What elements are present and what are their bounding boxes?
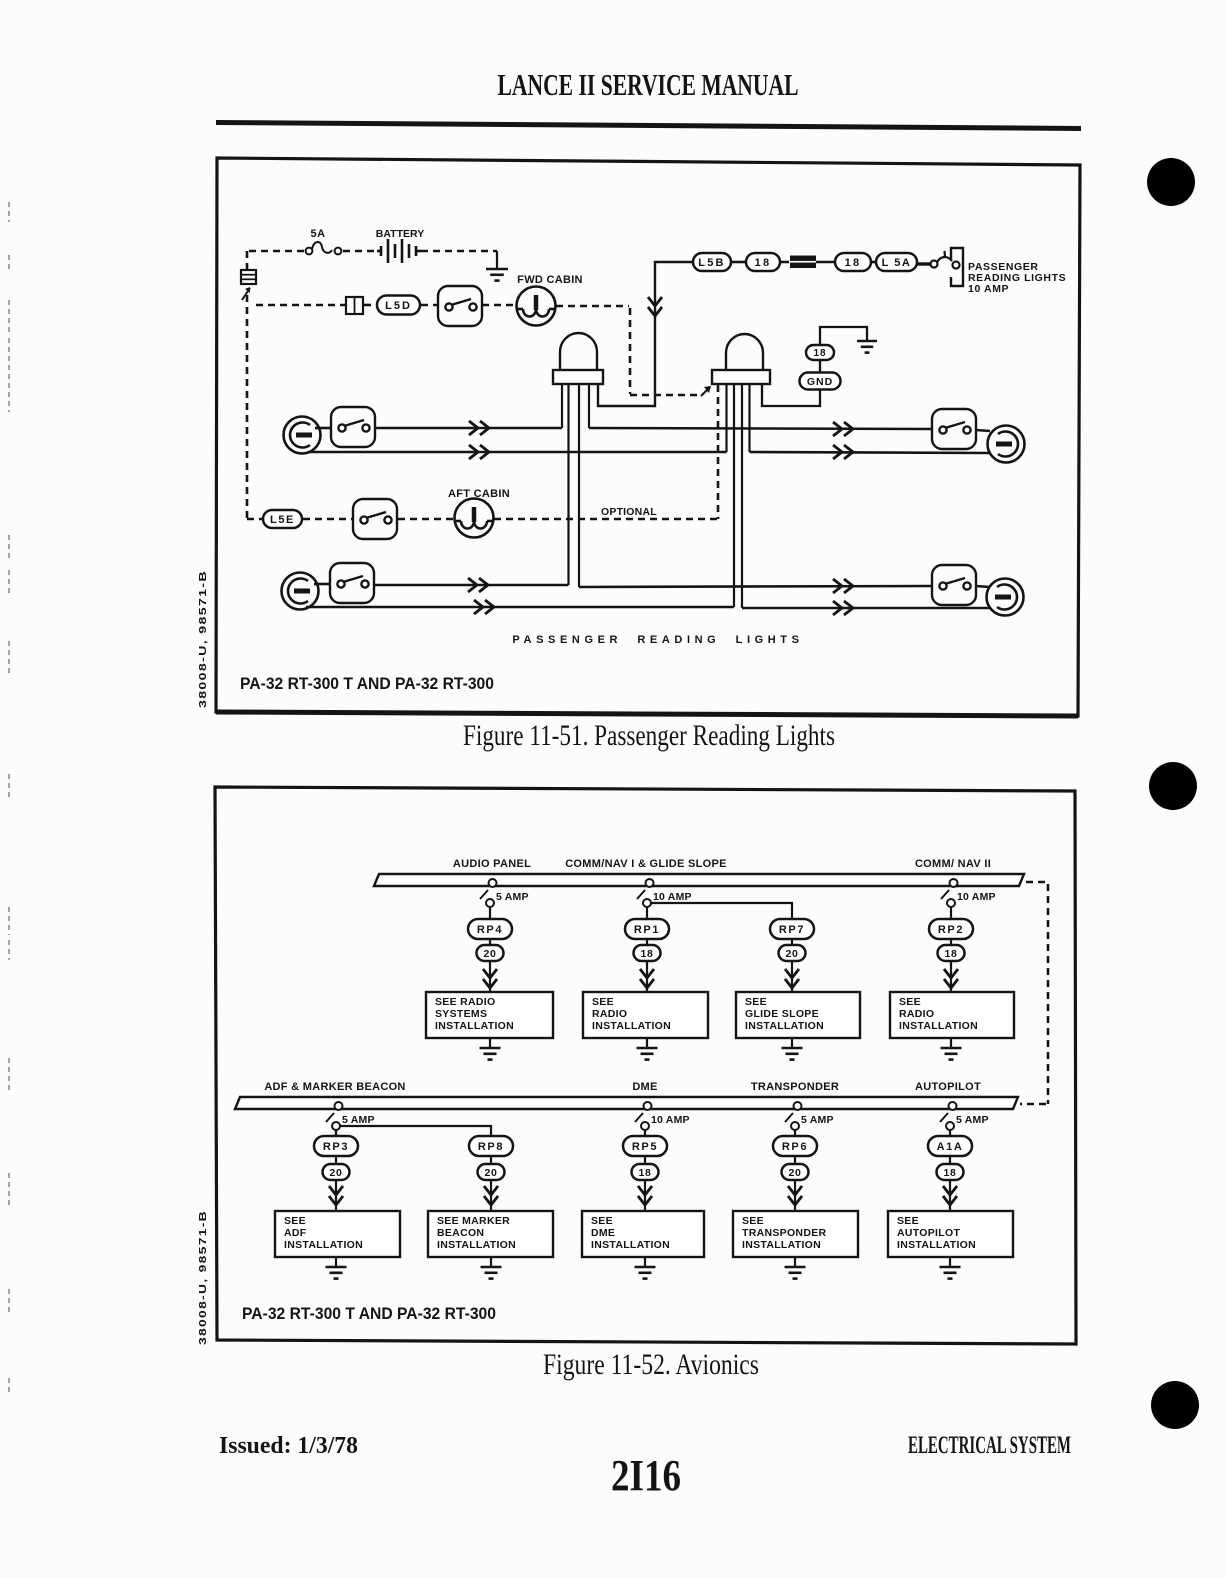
svg-text:RP2: RP2 xyxy=(938,924,964,936)
label oval L5B xyxy=(693,253,731,271)
wire gauge 18 xyxy=(634,945,661,961)
svg-text:Figure 11-51. Passenger Readi: Figure 11-51. Passenger Reading Lights xyxy=(463,719,835,752)
svg-text:18: 18 xyxy=(641,948,654,960)
J1 pin 4 + row1-right riser xyxy=(588,384,590,428)
wire breaker to RP1 xyxy=(646,907,648,919)
wire aft-cabin row (dashed) xyxy=(247,518,718,521)
svg-text:20: 20 xyxy=(786,948,799,960)
svg-text:2I16: 2I16 xyxy=(611,1451,681,1500)
svg-text:L5B: L5B xyxy=(698,257,725,269)
splice symbol xyxy=(790,256,816,269)
svg-text:SYSTEMS: SYSTEMS xyxy=(435,1008,487,1020)
wire tap to RP7 xyxy=(651,903,792,919)
dashed bus interconnect xyxy=(1020,882,1048,1104)
svg-text:GND: GND xyxy=(807,376,833,388)
battery BT1 xyxy=(377,239,421,263)
ground dme xyxy=(635,1267,656,1279)
svg-text:INSTALLATION: INSTALLATION xyxy=(592,1020,671,1032)
svg-text:20: 20 xyxy=(330,1167,343,1179)
svg-text:SEE: SEE xyxy=(592,996,614,1008)
flow chevrons xyxy=(469,421,489,435)
svg-text:SEE: SEE xyxy=(745,996,767,1008)
svg-text:RADIO: RADIO xyxy=(592,1008,627,1020)
wire row4-right xyxy=(742,607,991,610)
ground adf xyxy=(326,1267,347,1279)
svg-text:5 AMP: 5 AMP xyxy=(801,1114,834,1126)
punch mark 1 xyxy=(1147,158,1195,206)
svg-text:GLIDE SLOPE: GLIDE SLOPE xyxy=(745,1008,819,1020)
wire breaker to RP2 xyxy=(950,907,952,919)
wire xyxy=(950,939,952,945)
reading lamp right-bottom xyxy=(987,579,1024,616)
breaker label RP7 xyxy=(770,919,814,939)
flow chevrons xyxy=(833,445,853,459)
svg-text:10 AMP: 10 AMP xyxy=(968,283,1009,295)
label oval L5D xyxy=(377,296,420,315)
svg-text:10 AMP: 10 AMP xyxy=(957,891,996,903)
flow chevrons xyxy=(640,969,654,988)
svg-text:INSTALLATION: INSTALLATION xyxy=(745,1020,824,1032)
svg-text:FWD CABIN: FWD CABIN xyxy=(517,274,583,286)
svg-text:INSTALLATION: INSTALLATION xyxy=(742,1239,821,1251)
breaker A1A 5 AMP xyxy=(940,1102,957,1130)
ground transponder xyxy=(785,1267,806,1279)
wire gauge 20 xyxy=(779,945,806,961)
svg-text:18: 18 xyxy=(945,948,958,960)
svg-text:38008-U, 98571-B: 38008-U, 98571-B xyxy=(197,570,209,708)
svg-text:Issued: 1/3/78: Issued: 1/3/78 xyxy=(219,1433,358,1459)
wire to ground xyxy=(646,1038,648,1048)
fuse F1 5A xyxy=(306,242,342,254)
svg-text:RP6: RP6 xyxy=(782,1141,808,1153)
flow chevrons xyxy=(329,1186,343,1205)
svg-text:TRANSPONDER: TRANSPONDER xyxy=(742,1227,827,1239)
wire gauge 20 xyxy=(323,1164,350,1180)
wire to ground xyxy=(949,1257,951,1267)
breaker contact circles + arm xyxy=(931,251,960,269)
svg-text:RP5: RP5 xyxy=(632,1141,658,1153)
J1 pin 1 + row1-left riser xyxy=(561,384,563,428)
wire breaker to RP5 xyxy=(644,1130,646,1136)
title rule xyxy=(216,120,1081,131)
svg-text:ADF: ADF xyxy=(284,1227,307,1239)
wire GND to bulb J1 xyxy=(762,385,820,406)
wire feed vertical xyxy=(598,262,693,406)
flow chevrons xyxy=(474,600,494,614)
svg-text:RP3: RP3 xyxy=(323,1141,349,1153)
punch mark 3 xyxy=(1151,1381,1199,1429)
svg-text:SEE MARKER: SEE MARKER xyxy=(437,1215,510,1227)
svg-text:COMM/NAV I & GLIDE SLOPE: COMM/NAV I & GLIDE SLOPE xyxy=(565,858,727,870)
svg-text:AUTOPILOT: AUTOPILOT xyxy=(915,1081,981,1093)
switch right-mid xyxy=(932,409,976,449)
wire xyxy=(794,1156,796,1164)
figure 11-52 border xyxy=(215,787,1076,1344)
wire to ground xyxy=(794,1257,796,1267)
feed flow chevrons xyxy=(648,297,662,316)
wire gauge 20 xyxy=(478,1164,505,1180)
J1 pin 3 to row3-right xyxy=(578,384,580,587)
svg-text:L 5A: L 5A xyxy=(882,257,912,269)
flow chevrons xyxy=(833,579,853,593)
wire xyxy=(949,1156,951,1164)
svg-text:18: 18 xyxy=(944,1167,957,1179)
wire gauge 18 xyxy=(937,1164,964,1180)
J2 pin 3 to row4-right xyxy=(741,384,743,608)
wire to ground xyxy=(490,1257,492,1267)
wire xyxy=(871,261,876,264)
svg-text:SEE RADIO: SEE RADIO xyxy=(435,996,495,1008)
svg-text:L5E: L5E xyxy=(270,514,295,526)
ground radio 2 xyxy=(941,1048,962,1060)
left dashed riser to aft-cabin row xyxy=(246,295,249,519)
reading lamp right-mid xyxy=(988,426,1025,463)
J2 dashed optional pin xyxy=(717,385,720,519)
ground autopilot xyxy=(940,1267,961,1279)
svg-text:OPTIONAL: OPTIONAL xyxy=(601,506,657,518)
svg-text:INSTALLATION: INSTALLATION xyxy=(899,1020,978,1032)
flow chevrons xyxy=(833,601,853,615)
breaker RP5 10 AMP xyxy=(635,1102,652,1130)
connector splice block xyxy=(241,270,256,284)
switch left-mid xyxy=(331,407,375,447)
flow chevrons xyxy=(944,969,958,988)
box marker beacon xyxy=(428,1211,553,1257)
svg-text:20: 20 xyxy=(484,948,497,960)
wire to ground xyxy=(335,1257,337,1267)
svg-text:BATTERY: BATTERY xyxy=(376,228,424,240)
punch mark 2 xyxy=(1149,762,1197,810)
box glide slope xyxy=(736,992,860,1038)
svg-text:INSTALLATION: INSTALLATION xyxy=(437,1239,516,1251)
wire gauge 18 xyxy=(632,1164,659,1180)
J2 pin 2 to row4-left xyxy=(733,384,735,607)
wire breaker to RP4 xyxy=(489,907,491,919)
wire breaker to A1A xyxy=(949,1130,951,1136)
wire xyxy=(490,1156,492,1164)
wire gauge 20 xyxy=(782,1164,809,1180)
wire xyxy=(816,261,835,264)
switch left-bottom xyxy=(330,563,374,603)
wire 18 to GND xyxy=(819,360,821,373)
wire with chevrons xyxy=(791,961,793,992)
label oval L5E xyxy=(263,510,302,528)
wire row2-right xyxy=(750,452,991,453)
avionics bus bar 1 xyxy=(374,874,1024,886)
wire to ground xyxy=(489,1038,491,1048)
svg-text:10 AMP: 10 AMP xyxy=(653,891,692,903)
wire to ground xyxy=(791,1038,793,1048)
wire row3-left xyxy=(374,584,569,587)
breaker panel bracket xyxy=(951,248,963,286)
label oval 18 xyxy=(746,253,780,271)
wire xyxy=(646,939,648,945)
label oval 18 xyxy=(806,345,834,360)
arrow into connector xyxy=(242,287,250,300)
box adf xyxy=(275,1211,400,1257)
flow chevrons xyxy=(833,422,853,436)
lamp aft cabin xyxy=(455,499,494,538)
wire xyxy=(731,261,746,264)
svg-text:Figure 11-52. Avionics: Figure 11-52. Avionics xyxy=(543,1348,759,1381)
wire battery loop top (dashed) xyxy=(247,251,497,269)
svg-text:INSTALLATION: INSTALLATION xyxy=(591,1239,670,1251)
wire row1-left xyxy=(375,427,562,430)
svg-text:ELECTRICAL SYSTEM: ELECTRICAL SYSTEM xyxy=(908,1432,1071,1459)
svg-text:DME: DME xyxy=(632,1081,657,1093)
svg-text:SEE: SEE xyxy=(591,1215,613,1227)
svg-text:COMM/ NAV II: COMM/ NAV II xyxy=(915,858,991,870)
wire xyxy=(644,1156,646,1164)
reading lamp left-mid xyxy=(284,417,321,454)
battery ground stem xyxy=(496,251,498,269)
avionics bus bar 2 xyxy=(235,1097,1018,1109)
wire xyxy=(489,939,491,945)
flow chevrons xyxy=(469,445,489,459)
wire to ground xyxy=(644,1257,646,1267)
bulb socket J1 (left 4-pin) xyxy=(553,333,603,384)
svg-text:18: 18 xyxy=(813,348,826,359)
svg-text:PA-32 RT-300 T AND PA-32 RT-30: PA-32 RT-300 T AND PA-32 RT-300 xyxy=(240,675,494,693)
breaker label RP5 xyxy=(623,1136,667,1156)
flow chevrons xyxy=(638,1186,652,1205)
svg-text:18: 18 xyxy=(845,257,862,269)
cabin ground xyxy=(857,341,877,353)
svg-text:A1A: A1A xyxy=(937,1141,964,1153)
svg-text:20: 20 xyxy=(789,1167,802,1179)
wire to breaker xyxy=(917,262,930,265)
wire with chevrons xyxy=(335,1180,337,1211)
ground glide slope xyxy=(782,1048,803,1060)
svg-text:INSTALLATION: INSTALLATION xyxy=(435,1020,514,1032)
svg-text:RP4: RP4 xyxy=(477,924,503,936)
lamp fwd cabin xyxy=(517,287,556,326)
svg-text:INSTALLATION: INSTALLATION xyxy=(284,1239,363,1251)
svg-text:LANCE II SERVICE MANUAL: LANCE II SERVICE MANUAL xyxy=(498,67,799,102)
breaker RP2 10 AMP xyxy=(941,879,958,907)
svg-text:38008-U, 98571-B: 38008-U, 98571-B xyxy=(197,1210,209,1345)
wire tap to RP8 xyxy=(340,1126,491,1136)
svg-text:SEE: SEE xyxy=(897,1215,919,1227)
wire with chevrons xyxy=(489,961,491,992)
svg-text:BEACON: BEACON xyxy=(437,1227,484,1239)
label oval GND xyxy=(800,373,841,390)
wire xyxy=(780,261,789,264)
wire lamp to switch xyxy=(315,427,331,430)
svg-text:INSTALLATION: INSTALLATION xyxy=(897,1239,976,1251)
wire with chevrons xyxy=(949,1180,951,1211)
dashed branch around bulb J1 xyxy=(630,308,700,395)
svg-text:PASSENGER READING LIGHTS: PASSENGER READING LIGHTS xyxy=(512,634,803,646)
breaker label A1A xyxy=(928,1136,972,1156)
wire with chevrons xyxy=(644,1180,646,1211)
breaker RP6 5 AMP xyxy=(785,1102,802,1130)
breaker label RP6 xyxy=(773,1136,817,1156)
svg-text:5A: 5A xyxy=(310,228,325,240)
breaker label RP1 xyxy=(625,919,669,939)
wire gauge 18 xyxy=(938,945,965,961)
svg-text:RADIO: RADIO xyxy=(899,1008,934,1020)
switch right-bottom xyxy=(932,565,976,605)
figure 11-51 border xyxy=(216,158,1080,716)
svg-text:AUTOPILOT: AUTOPILOT xyxy=(897,1227,960,1239)
switch aft cabin xyxy=(353,499,397,539)
ground radio 1 xyxy=(637,1048,658,1060)
wire to ground xyxy=(950,1038,952,1048)
flow chevrons xyxy=(484,1186,498,1205)
figure 11-51 border bottom (heavy) xyxy=(216,712,1078,716)
flow chevrons xyxy=(943,1186,957,1205)
label oval L 5A xyxy=(876,253,917,271)
svg-text:SEE: SEE xyxy=(742,1215,764,1227)
battery ground xyxy=(486,269,508,281)
wire row2-left xyxy=(308,451,727,454)
wire lamp to switch xyxy=(314,583,330,586)
svg-text:SEE: SEE xyxy=(899,996,921,1008)
J2 pin 1 riser (row2-left) xyxy=(725,384,727,452)
svg-text:18: 18 xyxy=(755,257,772,269)
wire with chevrons xyxy=(794,1180,796,1211)
breaker label RP2 xyxy=(929,919,973,939)
breaker label RP8 xyxy=(469,1136,513,1156)
label oval 18 xyxy=(835,253,871,271)
J2 pin 4 riser (row2-right) xyxy=(748,384,750,452)
svg-text:SEE: SEE xyxy=(284,1215,306,1227)
svg-text:RP1: RP1 xyxy=(634,924,660,936)
svg-text:RP7: RP7 xyxy=(779,924,805,936)
svg-text:RP8: RP8 xyxy=(478,1141,504,1153)
wire switch to lamp xyxy=(976,586,989,587)
flow chevrons xyxy=(785,969,799,988)
switch fwd cabin xyxy=(438,286,482,326)
breaker label RP4 xyxy=(468,919,512,939)
svg-text:5 AMP: 5 AMP xyxy=(956,1114,989,1126)
ground radio systems xyxy=(480,1048,501,1060)
box radio 1 xyxy=(583,992,708,1038)
svg-text:L5D: L5D xyxy=(385,300,412,312)
flow chevrons xyxy=(483,969,497,988)
arrow to bulb J1 holder xyxy=(701,386,711,396)
wire row3-right xyxy=(579,586,932,587)
wire gauge 20 xyxy=(477,945,504,961)
wire xyxy=(791,939,793,945)
breaker RP1 10 AMP xyxy=(637,879,654,907)
flow chevrons xyxy=(468,578,488,592)
wire with chevrons xyxy=(646,961,648,992)
inline fuse holder xyxy=(346,297,363,314)
svg-text:DME: DME xyxy=(591,1227,615,1239)
svg-text:AUDIO PANEL: AUDIO PANEL xyxy=(453,858,531,870)
wire row1-right xyxy=(589,428,932,429)
wire switch to lamp xyxy=(976,430,990,431)
wire xyxy=(335,1156,337,1164)
box dme xyxy=(582,1211,704,1257)
svg-text:18: 18 xyxy=(639,1167,652,1179)
box radio systems xyxy=(426,992,553,1038)
svg-text:ADF & MARKER BEACON: ADF & MARKER BEACON xyxy=(264,1081,405,1093)
wire L5D row (dashed) xyxy=(256,305,629,306)
flow chevrons xyxy=(788,1186,802,1205)
box radio 2 xyxy=(890,992,1014,1038)
bulb socket J2 (right 4-pin) xyxy=(712,334,770,384)
J1 pin 2 to row3-left xyxy=(567,384,569,585)
breaker RP4 5 AMP xyxy=(480,879,497,907)
svg-text:20: 20 xyxy=(485,1167,498,1179)
reading lamp left-bottom xyxy=(282,573,319,610)
svg-text:10 AMP: 10 AMP xyxy=(651,1114,690,1126)
wire 18/GND riser xyxy=(820,327,867,345)
wire row4-left xyxy=(306,606,734,609)
wire breaker to RP3 xyxy=(335,1130,337,1136)
box autopilot xyxy=(888,1211,1013,1257)
ground marker beacon xyxy=(481,1267,502,1279)
breaker RP3 5 AMP xyxy=(326,1102,343,1130)
wire with chevrons xyxy=(950,961,952,992)
svg-text:TRANSPONDER: TRANSPONDER xyxy=(751,1081,839,1093)
svg-text:5 AMP: 5 AMP xyxy=(496,891,529,903)
svg-text:PA-32 RT-300 T AND PA-32 RT-30: PA-32 RT-300 T AND PA-32 RT-300 xyxy=(242,1305,496,1323)
label PASSENGER READING LIGHTS 10 AMP xyxy=(968,261,1066,295)
box transponder xyxy=(733,1211,858,1257)
wire breaker to RP6 xyxy=(794,1130,796,1136)
wire with chevrons xyxy=(490,1180,492,1211)
svg-text:5 AMP: 5 AMP xyxy=(342,1114,375,1126)
breaker label RP3 xyxy=(314,1136,358,1156)
